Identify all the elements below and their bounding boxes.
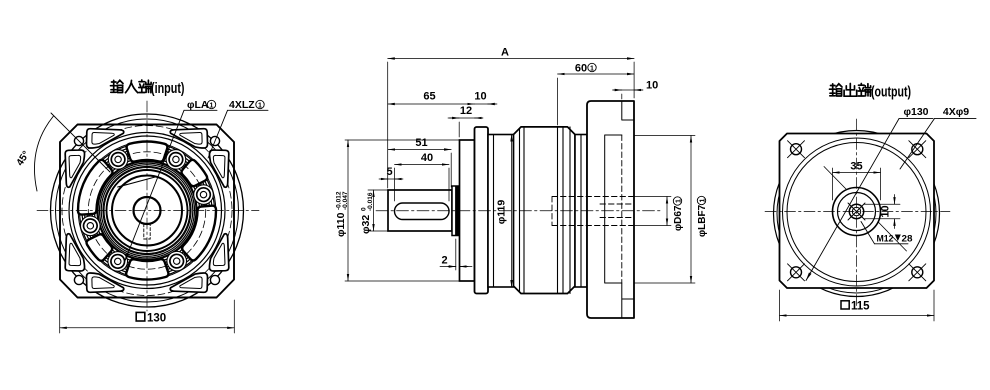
- svg-text:4Xφ9: 4Xφ9: [943, 106, 969, 118]
- svg-text:130: 130: [147, 312, 166, 324]
- svg-text:60: 60: [575, 63, 587, 75]
- svg-text:φ32: φ32: [360, 215, 372, 234]
- svg-text:51: 51: [415, 137, 427, 149]
- svg-text:-0.016: -0.016: [367, 192, 374, 211]
- svg-text:115: 115: [851, 300, 870, 312]
- svg-text:65: 65: [423, 91, 435, 103]
- svg-text:10: 10: [880, 205, 892, 217]
- svg-text:φD67: φD67: [673, 205, 684, 231]
- svg-text:φ110: φ110: [335, 212, 347, 237]
- svg-text:A: A: [501, 47, 509, 59]
- svg-text:5: 5: [386, 166, 392, 178]
- svg-text:12: 12: [460, 105, 472, 117]
- svg-text:10: 10: [646, 80, 658, 92]
- svg-text:φLA: φLA: [187, 99, 209, 111]
- svg-text:28: 28: [902, 234, 913, 245]
- svg-text:(output): (output): [871, 85, 911, 101]
- svg-text:M12: M12: [877, 234, 894, 245]
- svg-text:(input): (input): [151, 81, 185, 97]
- svg-text:φ119: φ119: [496, 200, 508, 225]
- svg-text:40: 40: [421, 152, 433, 164]
- svg-text:35: 35: [850, 161, 862, 173]
- svg-text:10: 10: [474, 91, 486, 103]
- svg-text:φ130: φ130: [903, 106, 928, 118]
- svg-text:2: 2: [441, 255, 447, 267]
- svg-text:-0.047: -0.047: [342, 191, 349, 210]
- svg-text:φLBF7: φLBF7: [697, 204, 708, 237]
- svg-text:4XLZ: 4XLZ: [229, 99, 255, 111]
